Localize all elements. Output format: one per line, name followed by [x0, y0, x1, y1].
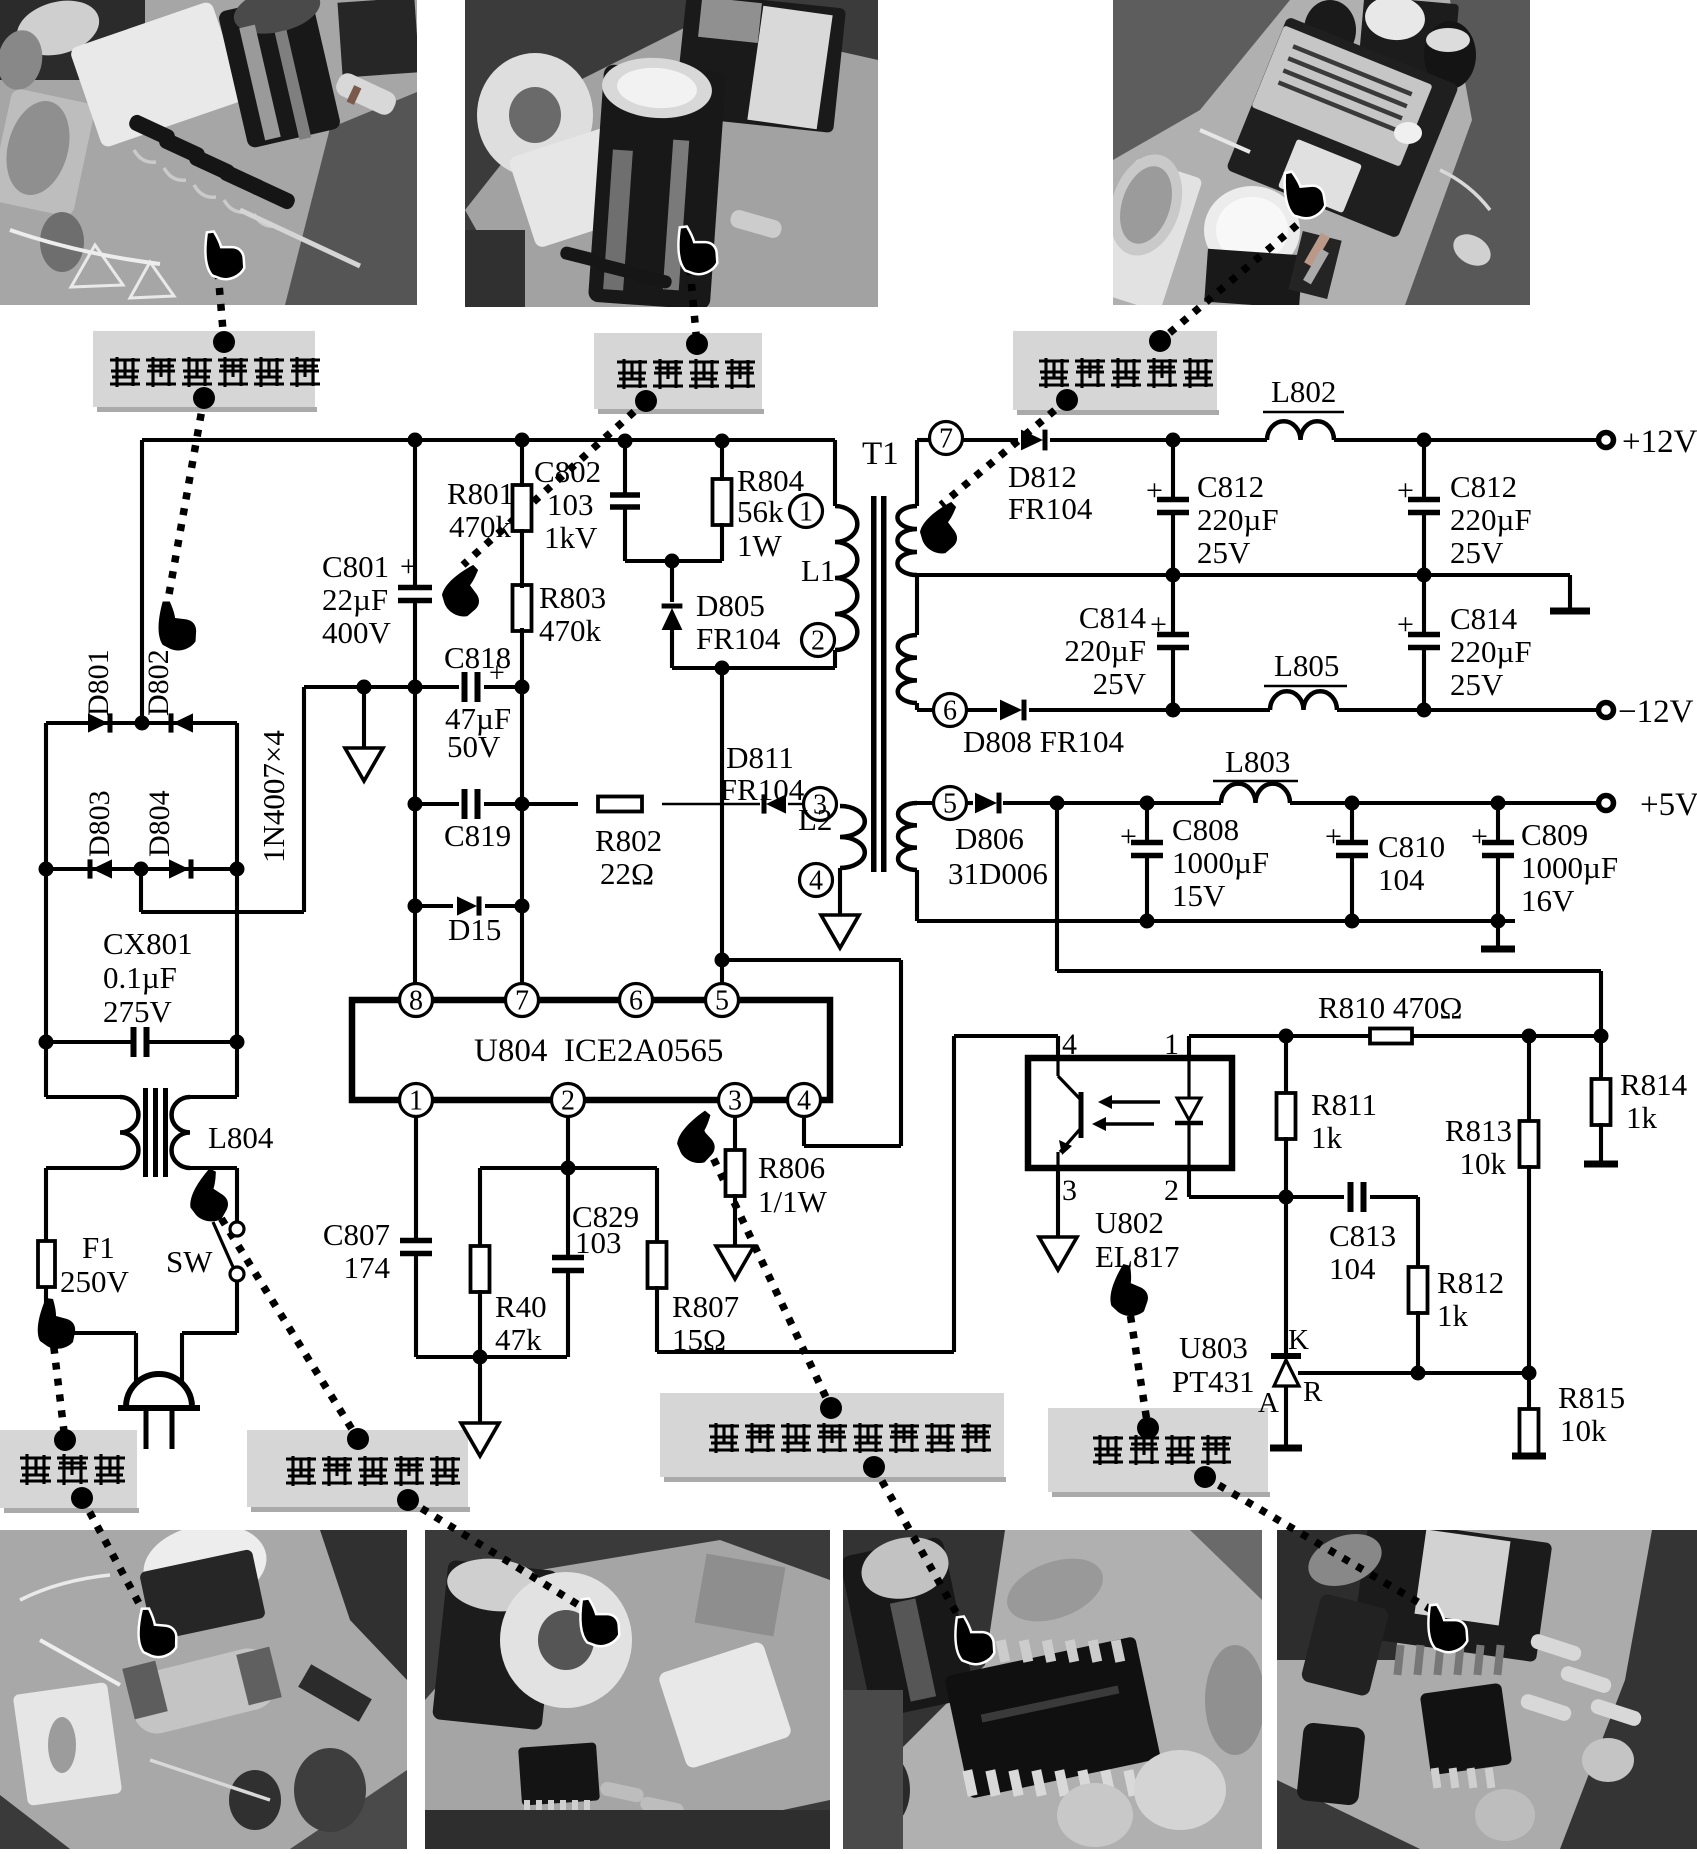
winding T1 sec lower	[898, 635, 917, 703]
label C812 b value	[1450, 502, 1532, 537]
resistor R815	[1520, 1409, 1539, 1455]
ground secondary 12V	[1550, 608, 1590, 615]
svg-text:R814: R814	[1620, 1067, 1688, 1102]
svg-text:174: 174	[344, 1250, 391, 1285]
label C802 value	[547, 487, 594, 522]
label R801 value	[449, 509, 512, 544]
svg-text:D805: D805	[696, 588, 765, 623]
wire +5V rail	[966, 801, 1598, 805]
label R813	[1445, 1113, 1512, 1148]
wire bridge bottom	[46, 867, 237, 871]
label D805	[696, 588, 765, 623]
wire left rail to F1	[44, 1168, 48, 1241]
svg-text:400V: 400V	[322, 615, 392, 650]
svg-text:C809: C809	[1521, 817, 1588, 852]
wire pin2 down	[566, 1116, 570, 1257]
wire -12V rail	[966, 708, 1598, 712]
ground L2	[821, 915, 859, 948]
hand cursor on photo6	[949, 1610, 998, 1669]
wire L804 top-left lead	[46, 1095, 120, 1099]
pin 2 circle	[802, 624, 835, 657]
junction y804 x522	[515, 797, 530, 812]
svg-text:+: +	[1146, 474, 1163, 507]
junction bridge bottom-right	[230, 862, 245, 877]
svg-text:D804: D804	[143, 790, 176, 857]
svg-text:1000µF: 1000µF	[1521, 850, 1618, 885]
label C812b plus	[1397, 474, 1414, 507]
junction CX801 right	[230, 1035, 245, 1050]
svg-text:R804: R804	[737, 463, 805, 498]
svg-text:22µF: 22µF	[322, 582, 388, 617]
svg-text:6: 6	[943, 696, 957, 727]
diode D808	[1000, 700, 1024, 721]
svg-text:4: 4	[797, 1086, 811, 1117]
wire mid tap rail	[917, 573, 1570, 577]
wire +5V return rail	[917, 919, 1515, 923]
label C818	[444, 640, 511, 675]
wire L1 top lead	[833, 440, 837, 506]
label C807 value	[344, 1250, 391, 1285]
junction top rail x625	[618, 434, 633, 449]
label C801	[322, 549, 389, 584]
svg-text:4: 4	[1062, 1028, 1077, 1061]
label C819	[444, 818, 511, 853]
wire pin5 lead	[917, 801, 934, 805]
label D811	[726, 740, 794, 775]
capacitor C809	[1482, 843, 1514, 856]
svg-text:220µF: 220µF	[1197, 502, 1279, 537]
label C812 b voltage	[1450, 535, 1504, 570]
wire bottom bus	[416, 1355, 567, 1359]
resistor R40	[471, 1246, 490, 1292]
junction y687 x522	[515, 680, 530, 695]
ground primary (near C818)	[345, 748, 383, 781]
junction y687 x364	[357, 680, 372, 695]
svg-text:L803: L803	[1225, 744, 1290, 779]
junction y906 x415	[408, 899, 423, 914]
label R814 value	[1626, 1100, 1658, 1135]
svg-text:U804 ICE2A0565: U804 ICE2A0565	[474, 1033, 723, 1069]
optocoupler U802 box	[1028, 1058, 1232, 1168]
svg-text:R802: R802	[595, 823, 662, 858]
resistor R807	[648, 1242, 667, 1288]
svg-text:103: 103	[575, 1225, 622, 1260]
hand cursor on photo1	[199, 225, 248, 284]
wire pin6 lead	[917, 703, 934, 710]
svg-text:470k: 470k	[539, 613, 602, 648]
diode D812	[1021, 430, 1045, 451]
diode D811	[764, 794, 786, 813]
svg-text:L1: L1	[801, 553, 835, 588]
opto LED	[1175, 1058, 1203, 1168]
core L804	[143, 1088, 168, 1177]
svg-text:4: 4	[809, 866, 823, 897]
wire C807 to bottom	[414, 1254, 418, 1357]
label 1N4007x4	[256, 730, 291, 863]
wire drain	[720, 668, 724, 984]
svg-text:220µF: 220µF	[1064, 633, 1146, 668]
winding T1 sec upper	[897, 506, 917, 575]
junction ref x1529	[1522, 1366, 1537, 1381]
junction top rail x522	[515, 433, 530, 448]
wire +300V top rail	[142, 438, 835, 442]
label D804	[143, 790, 176, 857]
core T1	[871, 496, 887, 872]
svg-text:7: 7	[939, 424, 953, 455]
label F1 voltage	[60, 1264, 130, 1299]
wire bridge right side	[235, 723, 239, 1097]
svg-text:L802: L802	[1271, 374, 1336, 409]
label C812 a	[1197, 469, 1264, 504]
pin 1 circle (IC)	[400, 1084, 433, 1117]
svg-text:+: +	[1150, 608, 1167, 641]
label: switching oscillator IC (Chinese callout)	[660, 1393, 1006, 1482]
label F1	[82, 1230, 115, 1265]
svg-text:6: 6	[629, 986, 643, 1017]
capacitor C818	[465, 672, 478, 702]
label C812 a voltage	[1197, 535, 1251, 570]
svg-text:56k: 56k	[737, 494, 784, 529]
pin 4 circle	[800, 864, 833, 897]
wire X415 lower	[413, 601, 417, 984]
wire C813 to R812	[1416, 1197, 1420, 1269]
inductor L805	[1270, 691, 1337, 710]
wire F1 to plug	[44, 1287, 48, 1333]
inductor L802	[1267, 421, 1334, 440]
label C801 plus	[400, 550, 417, 583]
opto transistor	[1058, 1058, 1081, 1168]
photo: fuse PCB (bottom-left)	[0, 1515, 407, 1849]
wire y668	[672, 666, 835, 670]
svg-text:104: 104	[1329, 1251, 1376, 1286]
label +12V	[1622, 424, 1697, 460]
junction +5 x1498	[1491, 796, 1506, 811]
junction y561 x672	[665, 554, 680, 569]
junction +5 x1352	[1345, 796, 1360, 811]
svg-text:C810: C810	[1378, 829, 1445, 864]
label R803	[539, 580, 606, 615]
label C801 value	[322, 582, 388, 617]
junction y804 x415	[408, 797, 423, 812]
wire X722 upper	[720, 440, 724, 561]
svg-text:+: +	[1397, 608, 1414, 641]
svg-text:D15: D15	[448, 912, 501, 947]
label C808 value	[1172, 845, 1269, 880]
junction ref x1418	[1411, 1366, 1426, 1381]
label: mutual-inductance filter (Chinese callout)	[247, 1430, 470, 1512]
svg-text:5: 5	[715, 986, 729, 1017]
label R40 value	[495, 1322, 542, 1357]
leader: L804 to filter label	[213, 1205, 369, 1450]
svg-text:CX801: CX801	[103, 926, 193, 961]
svg-text:FR104: FR104	[696, 621, 781, 656]
label C809	[1521, 817, 1588, 852]
wire X625	[623, 440, 627, 561]
label D812	[1008, 459, 1077, 494]
svg-text:C814: C814	[1079, 600, 1147, 635]
svg-text:275V: 275V	[103, 994, 173, 1029]
svg-text:R813: R813	[1445, 1113, 1512, 1148]
wire sec straight	[915, 575, 919, 635]
pin 3 circle	[804, 788, 837, 821]
junction CX801 left	[39, 1035, 54, 1050]
junction +5 x1057	[1050, 796, 1065, 811]
wire R807 bottom	[655, 1286, 659, 1352]
wire U803 gnd	[1284, 1386, 1288, 1445]
capacitor C801	[398, 588, 432, 601]
junction top rail x722	[715, 434, 730, 449]
svg-text:470k: 470k	[449, 509, 512, 544]
svg-text:1N4007×4: 1N4007×4	[256, 730, 291, 863]
label C814 b	[1450, 601, 1518, 636]
junction y906 x522	[515, 899, 530, 914]
label D15	[448, 912, 501, 947]
svg-text:R803: R803	[539, 580, 606, 615]
label D808 FR104	[963, 724, 1125, 759]
svg-text:31D006: 31D006	[948, 856, 1048, 891]
junction +12 x1424	[1417, 433, 1432, 448]
label C801 voltage	[322, 615, 392, 650]
svg-text:1W: 1W	[737, 528, 783, 563]
opto arrows	[1092, 1095, 1160, 1131]
pin 8 circle	[400, 984, 433, 1017]
leader: oscillator label to photo6	[863, 1456, 965, 1628]
label R814	[1620, 1067, 1688, 1102]
label C813 value	[1329, 1251, 1376, 1286]
label R815	[1558, 1380, 1625, 1415]
label C808	[1172, 812, 1239, 847]
label R810 470	[1318, 990, 1462, 1025]
svg-text:25V: 25V	[1093, 666, 1147, 701]
wire plug left step	[46, 1333, 136, 1383]
pin 1 circle	[790, 495, 823, 528]
svg-text:C807: C807	[323, 1217, 390, 1252]
junction y1168 x568	[561, 1161, 576, 1176]
resistor R803	[513, 585, 532, 631]
svg-text:C801: C801	[322, 549, 389, 584]
label C810	[1378, 829, 1445, 864]
photo: line filter PCB (bottom 2nd)	[425, 1530, 830, 1849]
label D811 type	[720, 772, 805, 807]
junction R810 x1286	[1279, 1029, 1294, 1044]
terminal -12V	[1599, 703, 1614, 718]
svg-text:R810 470Ω: R810 470Ω	[1318, 990, 1462, 1025]
svg-text:T1: T1	[862, 436, 899, 472]
wire y906	[415, 904, 522, 908]
junction -12 x1424	[1417, 703, 1432, 718]
label SW	[166, 1244, 213, 1279]
wire R806 gnd stem	[733, 1194, 737, 1246]
svg-text:1kV: 1kV	[544, 520, 598, 555]
svg-text:R: R	[1303, 1376, 1323, 1408]
wire R807 top	[655, 1168, 659, 1244]
svg-text:SW: SW	[166, 1244, 213, 1279]
label: bridge rectifier (Chinese callout)	[93, 331, 320, 412]
label C814 a	[1079, 600, 1147, 635]
hand cursor on photo5	[574, 1592, 623, 1651]
label C809 voltage	[1521, 883, 1575, 918]
svg-text:+5V: +5V	[1640, 787, 1697, 823]
label L1	[801, 553, 835, 588]
leader: optocoupler label to photo7	[1194, 1466, 1440, 1615]
svg-text:+: +	[1471, 820, 1488, 853]
wire L804 top-right lead	[190, 1095, 237, 1099]
svg-text:D802: D802	[142, 649, 175, 716]
resistor R801	[513, 485, 532, 531]
label U803	[1179, 1330, 1248, 1365]
photo: filter capacitor PCB (top-center)	[465, 0, 878, 310]
label C810 value	[1378, 862, 1425, 897]
svg-text:L2: L2	[798, 802, 832, 837]
label: switching transformer (Chinese callout)	[1013, 331, 1219, 415]
ground C809	[1481, 946, 1515, 953]
wire bridge neg riser	[302, 687, 306, 912]
hand cursor at U802	[1108, 1263, 1152, 1318]
switch SW lever	[213, 1222, 233, 1267]
label: fuse (Chinese callout)	[0, 1430, 139, 1513]
wire +5V sense	[1057, 803, 1601, 1036]
svg-text:220µF: 220µF	[1450, 502, 1532, 537]
svg-text:R806: R806	[758, 1150, 825, 1185]
pin 6 circle	[620, 984, 653, 1017]
pin 2 circle (IC)	[552, 1084, 585, 1117]
pin 5 circle	[934, 787, 967, 820]
svg-text:R801: R801	[447, 476, 514, 511]
svg-text:220µF: 220µF	[1450, 634, 1532, 669]
svg-text:C814: C814	[1450, 601, 1518, 636]
label C814 a value	[1064, 633, 1146, 668]
label L804	[208, 1120, 274, 1155]
hand cursor on photo7	[1422, 1598, 1471, 1657]
junction +12 x1173	[1166, 433, 1181, 448]
label C802 voltage	[544, 520, 598, 555]
capacitor C810	[1336, 843, 1368, 856]
svg-text:F1: F1	[82, 1230, 115, 1265]
svg-text:8: 8	[409, 986, 423, 1017]
wire gnd stem R40	[478, 1357, 482, 1423]
svg-text:2: 2	[561, 1086, 575, 1117]
label C814 b value	[1450, 634, 1532, 669]
svg-text:1000µF: 1000µF	[1172, 845, 1269, 880]
inductor L804 right winding	[172, 1097, 190, 1168]
svg-text:L805: L805	[1274, 648, 1339, 683]
label R804 power	[737, 528, 783, 563]
pin 7 circle	[930, 422, 963, 455]
svg-text:50V: 50V	[447, 729, 501, 764]
svg-text:L804: L804	[208, 1120, 274, 1155]
junction top rail x414	[408, 433, 423, 448]
leader: photo2 to filter-cap label	[686, 268, 708, 355]
wire L804 bottom-right lead	[190, 1166, 237, 1170]
wire C810 leads	[1350, 803, 1354, 921]
svg-text:D801: D801	[82, 649, 115, 716]
junction bridge bottom-center	[134, 862, 149, 877]
capacitor C808	[1131, 843, 1163, 856]
svg-text:25V: 25V	[1450, 667, 1504, 702]
capacitor C812 a	[1157, 500, 1189, 513]
svg-text:EL817: EL817	[1095, 1239, 1179, 1274]
inductor L804 left winding	[120, 1097, 138, 1168]
junction drain y960	[715, 953, 730, 968]
label U803 K	[1288, 1324, 1309, 1356]
label R806	[758, 1150, 825, 1185]
label L803	[1213, 744, 1298, 781]
wire drain to pin4 loop	[722, 960, 901, 1146]
label D801	[82, 649, 115, 716]
svg-text:R807: R807	[672, 1289, 739, 1324]
label C809 plus	[1471, 820, 1488, 853]
junction R810 x1601	[1594, 1029, 1609, 1044]
label C818 voltage	[447, 729, 501, 764]
label R40	[495, 1289, 547, 1324]
wire R811 top	[1284, 1036, 1288, 1096]
junction bottom x480	[473, 1350, 488, 1365]
svg-text:U803: U803	[1179, 1330, 1248, 1365]
label R812	[1437, 1265, 1504, 1300]
wire pin2 row	[1189, 1195, 1418, 1199]
resistor R812	[1409, 1267, 1428, 1313]
svg-text:+12V: +12V	[1622, 424, 1697, 460]
diode D806	[975, 793, 999, 814]
svg-text:7: 7	[515, 986, 529, 1017]
diode D801	[88, 713, 110, 732]
label C812 b	[1450, 469, 1517, 504]
svg-text:C812: C812	[1197, 469, 1264, 504]
svg-text:R815: R815	[1558, 1380, 1625, 1415]
wire R810 row	[1189, 1034, 1601, 1038]
junction R810 x1529	[1522, 1029, 1537, 1044]
IC U804 box	[352, 1000, 830, 1100]
label T1	[862, 436, 899, 472]
junction ret x1498	[1491, 914, 1506, 929]
label C814 a voltage	[1093, 666, 1147, 701]
ground opto	[1039, 1237, 1077, 1270]
svg-text:3: 3	[728, 1086, 742, 1117]
pin 6 circle	[934, 694, 967, 727]
wire R814 gnd stem	[1599, 1123, 1603, 1161]
wire D805 upper	[670, 561, 674, 602]
ground R40	[461, 1423, 499, 1456]
label C818 value	[445, 701, 511, 736]
leader: filter-cap label to C801	[463, 390, 657, 565]
pin 7 circle	[506, 984, 539, 1017]
label: filter capacitor (Chinese callout)	[594, 333, 764, 414]
label R802 value	[600, 856, 654, 891]
svg-text:2: 2	[811, 626, 825, 657]
capacitor C807	[400, 1241, 432, 1254]
resistor R802	[598, 797, 642, 812]
label C807	[323, 1217, 390, 1252]
wire C812b leads	[1422, 440, 1426, 575]
wire U803 K	[1284, 1197, 1288, 1356]
plug AC	[118, 1374, 200, 1449]
svg-text:22Ω: 22Ω	[600, 856, 654, 891]
leader: fuse label to photo4	[71, 1487, 148, 1620]
svg-text:+: +	[1397, 474, 1414, 507]
wire R813 top	[1527, 1036, 1531, 1123]
svg-text:C812: C812	[1450, 469, 1517, 504]
TL431 U803	[1271, 1356, 1301, 1386]
svg-text:1: 1	[799, 497, 813, 528]
capacitor C814 b	[1408, 635, 1440, 648]
junction y668 x722	[715, 661, 730, 676]
wire R813 bottom	[1527, 1165, 1531, 1373]
wire opto pin1 up	[1187, 1036, 1191, 1058]
resistor R804	[713, 479, 732, 525]
label C808 voltage	[1172, 878, 1226, 913]
pin 4 circle (IC)	[788, 1084, 821, 1117]
svg-text:R40: R40	[495, 1289, 547, 1324]
